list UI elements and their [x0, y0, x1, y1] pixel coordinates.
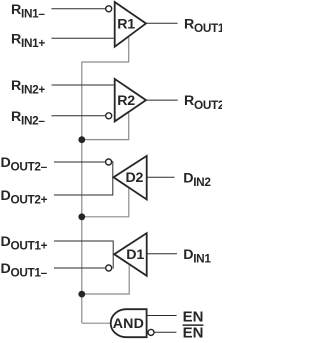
svg-text:EN: EN [183, 309, 204, 326]
svg-text:D2: D2 [126, 170, 144, 186]
svg-text:R2: R2 [117, 93, 135, 109]
svg-text:AND: AND [113, 316, 144, 332]
svg-text:R1: R1 [117, 16, 135, 32]
svg-text:EN: EN [183, 324, 204, 341]
svg-text:D1: D1 [126, 247, 144, 263]
